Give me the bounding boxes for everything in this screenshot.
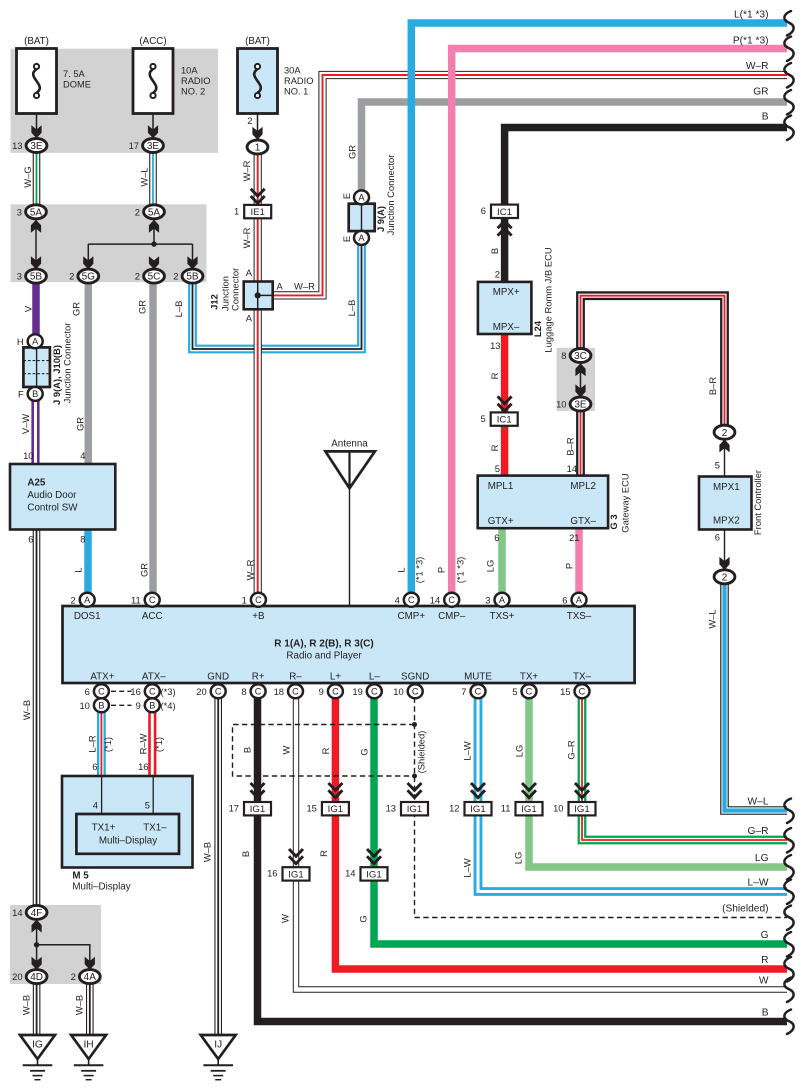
svg-text:2: 2: [247, 115, 252, 126]
svg-text:B: B: [762, 1008, 769, 1019]
svg-text:(*1): (*1): [153, 737, 164, 752]
svg-text:R–W: R–W: [138, 733, 149, 754]
svg-text:C: C: [412, 687, 419, 697]
svg-text:W–B: W–B: [21, 700, 32, 720]
svg-text:LG: LG: [755, 853, 769, 864]
svg-text:TX1+: TX1+: [92, 823, 116, 834]
svg-text:5G: 5G: [82, 272, 96, 283]
svg-text:6: 6: [562, 594, 567, 605]
svg-text:4D: 4D: [30, 972, 43, 983]
svg-text:L–W: L–W: [748, 878, 769, 889]
svg-text:C: C: [371, 687, 378, 697]
svg-text:J 9(A), J10(B): J 9(A), J10(B): [51, 345, 62, 405]
svg-text:L–W: L–W: [462, 741, 473, 760]
svg-text:8: 8: [241, 686, 246, 697]
svg-text:15: 15: [560, 686, 570, 697]
svg-text:1: 1: [242, 594, 247, 605]
svg-text:Gateway ECU: Gateway ECU: [620, 473, 631, 533]
svg-text:C: C: [448, 595, 455, 605]
svg-text:11: 11: [131, 594, 141, 605]
svg-text:3: 3: [17, 206, 22, 217]
svg-text:ACC: ACC: [142, 611, 163, 622]
svg-text:Luggage Romm J/B ECU: Luggage Romm J/B ECU: [543, 247, 554, 352]
svg-text:R–: R–: [289, 672, 302, 683]
svg-text:IG: IG: [32, 1040, 43, 1051]
svg-text:2: 2: [70, 594, 75, 605]
svg-text:6: 6: [85, 686, 90, 697]
svg-text:5: 5: [480, 413, 485, 424]
svg-text:11: 11: [501, 803, 511, 814]
svg-text:DOS1: DOS1: [74, 611, 101, 622]
svg-text:4: 4: [395, 594, 400, 605]
svg-text:10: 10: [393, 686, 403, 697]
svg-text:R: R: [320, 747, 331, 754]
svg-text:CMP+: CMP+: [398, 611, 426, 622]
svg-text:2: 2: [722, 572, 728, 583]
svg-text:IG1: IG1: [328, 804, 343, 815]
svg-text:14: 14: [567, 463, 577, 474]
svg-text:B: B: [98, 701, 104, 711]
svg-text:IG1: IG1: [521, 804, 536, 815]
svg-text:MUTE: MUTE: [464, 672, 492, 683]
svg-text:5: 5: [495, 463, 500, 474]
svg-text:8: 8: [561, 350, 566, 361]
svg-text:W–R: W–R: [245, 559, 256, 580]
svg-text:(*1 *3): (*1 *3): [414, 557, 425, 584]
svg-text:IG1: IG1: [250, 804, 265, 815]
svg-text:ATX–: ATX–: [142, 672, 166, 683]
svg-text:A: A: [32, 337, 39, 347]
svg-text:IH: IH: [83, 1040, 93, 1051]
svg-text:L+: L+: [330, 672, 341, 683]
svg-text:W–R: W–R: [241, 227, 252, 248]
svg-text:(*3): (*3): [161, 686, 176, 697]
svg-text:R+: R+: [252, 672, 265, 683]
svg-text:P: P: [436, 567, 447, 573]
svg-text:10: 10: [23, 450, 33, 461]
svg-text:1: 1: [234, 205, 239, 216]
svg-text:NO. 1: NO. 1: [284, 87, 308, 97]
svg-text:MPL1: MPL1: [488, 481, 514, 492]
svg-text:L–W: L–W: [462, 858, 473, 877]
svg-text:J12: J12: [209, 294, 220, 310]
svg-text:21: 21: [569, 532, 579, 543]
svg-text:6: 6: [715, 532, 720, 543]
svg-text:IG1: IG1: [470, 804, 485, 815]
svg-text:TXS+: TXS+: [490, 611, 515, 622]
svg-text:E: E: [341, 193, 352, 199]
svg-text:L: L: [73, 567, 84, 572]
svg-text:MPL2: MPL2: [570, 481, 596, 492]
svg-text:A: A: [246, 267, 253, 278]
svg-text:L–B: L–B: [173, 301, 184, 318]
svg-text:IG1: IG1: [288, 869, 303, 880]
svg-text:L24: L24: [532, 320, 543, 337]
svg-text:A25: A25: [27, 478, 46, 489]
svg-text:A: A: [246, 313, 253, 324]
svg-text:4F: 4F: [31, 908, 43, 919]
svg-text:(BAT): (BAT): [245, 36, 270, 47]
svg-text:GR: GR: [753, 87, 768, 98]
svg-text:B: B: [149, 701, 155, 711]
svg-text:RADIO: RADIO: [181, 76, 210, 86]
svg-text:17: 17: [229, 803, 239, 814]
svg-text:10A: 10A: [181, 66, 198, 76]
svg-text:MPX–: MPX–: [493, 322, 520, 333]
svg-text:C: C: [255, 687, 262, 697]
svg-text:L(*1 *3): L(*1 *3): [734, 10, 769, 21]
svg-text:GR: GR: [139, 563, 150, 577]
svg-text:GTX+: GTX+: [488, 516, 514, 527]
svg-text:C: C: [475, 687, 482, 697]
svg-text:L: L: [396, 567, 407, 572]
svg-text:F: F: [18, 389, 24, 400]
svg-text:4A: 4A: [84, 972, 97, 983]
svg-text:B: B: [32, 389, 38, 399]
svg-text:ATX+: ATX+: [90, 672, 114, 683]
svg-text:W–B: W–B: [21, 995, 32, 1015]
svg-text:A: A: [358, 193, 365, 203]
svg-text:M 5: M 5: [72, 871, 89, 882]
svg-text:12: 12: [449, 803, 459, 814]
svg-text:LG: LG: [513, 852, 524, 865]
svg-text:13: 13: [490, 340, 500, 351]
svg-text:Multi–Display: Multi–Display: [99, 836, 157, 847]
svg-text:5C: 5C: [148, 272, 161, 283]
svg-text:GTX–: GTX–: [570, 516, 596, 527]
svg-text:18: 18: [274, 686, 284, 697]
svg-text:C: C: [255, 595, 262, 605]
svg-text:30A: 30A: [284, 66, 301, 76]
svg-text:8: 8: [80, 534, 85, 545]
svg-text:(*4): (*4): [161, 700, 176, 711]
svg-text:6: 6: [28, 534, 33, 545]
svg-text:2: 2: [135, 206, 140, 217]
svg-text:20: 20: [196, 686, 206, 697]
svg-text:Junction Connector: Junction Connector: [385, 155, 396, 236]
svg-text:14: 14: [430, 594, 440, 605]
svg-text:H: H: [17, 336, 24, 347]
svg-text:C: C: [292, 687, 299, 697]
svg-text:+B: +B: [252, 611, 265, 622]
svg-text:C: C: [149, 595, 156, 605]
svg-text:TX+: TX+: [520, 672, 539, 683]
svg-text:6: 6: [92, 761, 97, 772]
svg-text:A: A: [358, 233, 365, 243]
svg-text:16: 16: [138, 761, 148, 772]
svg-text:C: C: [215, 687, 222, 697]
svg-text:2: 2: [495, 269, 500, 280]
svg-text:W–L: W–L: [707, 609, 718, 628]
svg-text:B: B: [242, 747, 253, 753]
svg-text:(ACC): (ACC): [139, 36, 166, 47]
svg-text:5A: 5A: [30, 207, 43, 218]
svg-text:W–B: W–B: [202, 842, 213, 862]
svg-text:GND: GND: [207, 672, 229, 683]
svg-text:B: B: [762, 112, 769, 123]
svg-text:A: A: [84, 595, 91, 605]
svg-text:6: 6: [494, 532, 499, 543]
svg-text:G: G: [359, 748, 370, 755]
svg-text:Antenna: Antenna: [331, 439, 368, 450]
svg-text:17: 17: [129, 140, 139, 151]
svg-text:CMP–: CMP–: [438, 611, 466, 622]
svg-text:L–: L–: [369, 672, 380, 683]
svg-text:5: 5: [715, 460, 720, 471]
svg-text:B: B: [240, 851, 251, 857]
svg-text:19: 19: [352, 686, 362, 697]
svg-text:Junction Connector: Junction Connector: [62, 323, 73, 404]
svg-text:G–R: G–R: [748, 826, 769, 837]
svg-text:9: 9: [319, 686, 324, 697]
svg-text:SGND: SGND: [401, 672, 429, 683]
svg-text:4: 4: [80, 450, 85, 461]
svg-text:W–G: W–G: [22, 166, 33, 187]
svg-text:IJ: IJ: [214, 1040, 222, 1051]
svg-text:C: C: [332, 687, 339, 697]
svg-text:C: C: [98, 687, 105, 697]
svg-text:10: 10: [556, 399, 566, 410]
svg-text:TX–: TX–: [573, 672, 592, 683]
svg-text:(BAT): (BAT): [24, 36, 49, 47]
svg-text:IC1: IC1: [497, 415, 512, 426]
svg-text:3E: 3E: [147, 141, 160, 152]
svg-text:W–R: W–R: [241, 160, 252, 181]
svg-text:GR: GR: [137, 300, 148, 314]
svg-text:RADIO: RADIO: [284, 76, 313, 86]
svg-text:14: 14: [12, 907, 22, 918]
svg-text:(*1): (*1): [102, 737, 113, 752]
svg-text:15: 15: [306, 803, 316, 814]
svg-text:(*1 *3): (*1 *3): [455, 557, 466, 584]
svg-text:5: 5: [145, 800, 150, 811]
svg-text:16: 16: [267, 868, 277, 879]
svg-text:C: C: [408, 595, 415, 605]
svg-text:IG1: IG1: [366, 869, 381, 880]
svg-text:W–L: W–L: [139, 167, 150, 186]
svg-text:2: 2: [722, 428, 728, 439]
svg-text:GR: GR: [71, 302, 82, 316]
svg-text:R: R: [489, 444, 500, 451]
svg-text:2: 2: [69, 271, 74, 282]
svg-text:W–B: W–B: [74, 995, 85, 1015]
svg-text:C: C: [149, 687, 156, 697]
svg-text:MPX+: MPX+: [493, 287, 520, 298]
svg-text:3: 3: [485, 594, 490, 605]
svg-text:IG1: IG1: [407, 804, 422, 815]
svg-text:5A: 5A: [148, 207, 161, 218]
svg-text:TX1–: TX1–: [143, 823, 167, 834]
svg-text:A: A: [576, 595, 583, 605]
svg-text:Multi–Display: Multi–Display: [72, 882, 130, 893]
svg-text:W: W: [280, 914, 291, 923]
svg-text:NO. 2: NO. 2: [181, 87, 205, 97]
svg-text:Audio Door: Audio Door: [27, 490, 77, 501]
svg-text:(Shielded): (Shielded): [416, 731, 427, 774]
svg-text:V–W: V–W: [20, 414, 31, 434]
svg-text:C: C: [579, 687, 586, 697]
svg-text:20: 20: [12, 971, 22, 982]
svg-text:5B: 5B: [30, 272, 43, 283]
svg-text:16: 16: [130, 686, 140, 697]
svg-text:W: W: [759, 976, 769, 987]
svg-text:MPX2: MPX2: [713, 516, 740, 527]
svg-text:13: 13: [386, 803, 396, 814]
svg-text:R: R: [489, 372, 500, 379]
svg-text:IE1: IE1: [250, 207, 264, 218]
svg-text:B–R: B–R: [707, 377, 718, 395]
svg-text:Radio and Player: Radio and Player: [286, 651, 362, 662]
svg-text:R: R: [318, 850, 329, 857]
svg-text:R: R: [761, 955, 768, 966]
svg-text:R 1(A), R 2(B), R 3(C): R 1(A), R 2(B), R 3(C): [274, 639, 373, 650]
svg-text:5: 5: [512, 686, 517, 697]
svg-text:Control SW: Control SW: [27, 503, 78, 514]
svg-text:14: 14: [345, 868, 355, 879]
svg-text:13: 13: [12, 140, 22, 151]
svg-text:7: 7: [461, 686, 466, 697]
svg-text:GR: GR: [347, 145, 358, 159]
svg-text:E: E: [341, 236, 352, 242]
svg-text:G: G: [761, 930, 769, 941]
svg-text:L–B: L–B: [346, 300, 357, 317]
svg-text:5B: 5B: [186, 272, 199, 283]
svg-text:G: G: [358, 915, 369, 922]
svg-text:2: 2: [135, 271, 140, 282]
svg-text:A: A: [499, 595, 506, 605]
svg-text:W: W: [281, 745, 292, 754]
svg-text:G–R: G–R: [566, 740, 577, 760]
svg-text:2: 2: [173, 271, 178, 282]
svg-text:3: 3: [17, 271, 22, 282]
svg-text:W–L: W–L: [748, 797, 769, 808]
svg-text:C: C: [526, 687, 533, 697]
svg-text:2: 2: [71, 971, 76, 982]
svg-text:3E: 3E: [574, 400, 587, 411]
svg-text:DOME: DOME: [63, 80, 91, 90]
svg-text:6: 6: [481, 205, 486, 216]
svg-text:Connector: Connector: [230, 268, 241, 311]
svg-text:W–R: W–R: [746, 61, 769, 72]
svg-text:B: B: [489, 248, 500, 254]
svg-text:W–R: W–R: [294, 281, 315, 292]
svg-text:3E: 3E: [30, 141, 43, 152]
svg-text:LG: LG: [485, 560, 496, 573]
svg-text:G 3: G 3: [608, 514, 619, 529]
svg-text:LG: LG: [514, 745, 525, 758]
svg-text:TXS–: TXS–: [567, 611, 592, 622]
svg-text:L–R: L–R: [87, 735, 98, 752]
svg-text:1: 1: [255, 143, 261, 154]
svg-text:GR: GR: [75, 417, 86, 431]
svg-text:10: 10: [79, 700, 89, 711]
svg-text:Front Controller: Front Controller: [752, 470, 763, 535]
svg-text:P: P: [564, 563, 575, 569]
svg-text:3C: 3C: [574, 351, 587, 362]
svg-text:A: A: [277, 281, 284, 292]
svg-text:4: 4: [93, 800, 98, 811]
svg-text:V: V: [23, 305, 34, 312]
svg-text:(Shielded): (Shielded): [722, 904, 768, 915]
svg-text:IG1: IG1: [574, 804, 589, 815]
svg-text:IC1: IC1: [497, 207, 512, 218]
svg-text:7. 5A: 7. 5A: [63, 69, 86, 79]
svg-text:10: 10: [553, 803, 563, 814]
svg-text:B–R: B–R: [565, 437, 576, 455]
svg-text:P(*1 *3): P(*1 *3): [733, 36, 769, 47]
svg-text:9: 9: [136, 700, 141, 711]
svg-text:MPX1: MPX1: [713, 482, 740, 493]
